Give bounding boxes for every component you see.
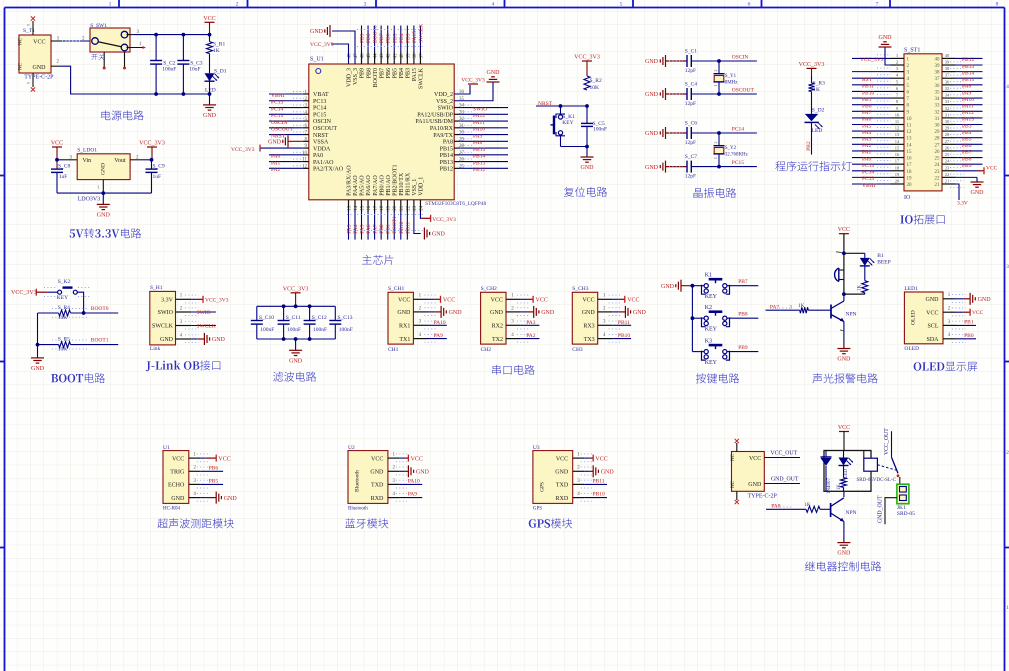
svg-text:SWCLK: SWCLK: [419, 67, 425, 89]
svg-text:11: 11: [895, 119, 899, 124]
svg-text:GND: GND: [432, 232, 446, 238]
svg-text:S_C10: S_C10: [259, 315, 274, 321]
svg-text:VCC: VCC: [986, 166, 998, 172]
svg-text:PB8: PB8: [366, 68, 372, 78]
svg-text:PA3/RX/AO: PA3/RX/AO: [347, 165, 353, 196]
svg-text:1uF: 1uF: [153, 174, 162, 180]
svg-text:RX3: RX3: [583, 324, 594, 330]
svg-text:PB11/RX: PB11/RX: [406, 172, 412, 196]
svg-text:PC14: PC14: [313, 106, 326, 112]
svg-text:PA12/USB/DP: PA12/USB/DP: [417, 112, 453, 118]
svg-text:GND: GND: [971, 190, 985, 196]
svg-text:PA11: PA11: [962, 103, 974, 109]
svg-text:NC: NC: [731, 453, 736, 461]
svg-text:VBAT: VBAT: [271, 93, 286, 99]
svg-text:27: 27: [945, 139, 950, 144]
svg-text:PA4: PA4: [862, 130, 872, 136]
svg-text:PC13: PC13: [313, 99, 326, 105]
svg-text:GND: GND: [31, 366, 45, 372]
svg-text:28: 28: [945, 132, 950, 137]
svg-text:S_R5: S_R5: [58, 337, 70, 343]
svg-text:SDA: SDA: [926, 337, 939, 343]
svg-text:GND: GND: [203, 113, 217, 119]
svg-text:PA2/TX/AO: PA2/TX/AO: [313, 167, 344, 173]
svg-text:OSCIN: OSCIN: [271, 120, 288, 126]
svg-text:28: 28: [935, 137, 941, 142]
svg-text:PB10: PB10: [618, 333, 630, 339]
svg-text:PA7: PA7: [373, 224, 379, 234]
svg-text:RST: RST: [862, 77, 873, 83]
svg-text:BEEP: BEEP: [877, 260, 890, 266]
svg-text:VCC: VCC: [838, 425, 850, 431]
svg-text:PA15: PA15: [412, 68, 418, 81]
svg-text:PA10: PA10: [408, 479, 420, 485]
svg-text:S_C1: S_C1: [685, 48, 697, 54]
svg-text:2: 2: [713, 70, 718, 72]
svg-text:PA7/AO: PA7/AO: [373, 175, 379, 196]
svg-text:32.768KHz: 32.768KHz: [725, 152, 749, 157]
svg-text:PA10: PA10: [473, 127, 485, 133]
svg-text:33: 33: [945, 99, 950, 104]
svg-text:PA9/TX: PA9/TX: [433, 133, 453, 139]
svg-text:NC: NC: [731, 480, 736, 488]
svg-text:PB3: PB3: [405, 33, 411, 43]
svg-text:PB7: PB7: [962, 150, 972, 156]
svg-text:VCC_OUT: VCC_OUT: [770, 451, 797, 457]
svg-text:27: 27: [935, 143, 941, 148]
svg-text:PB11: PB11: [618, 320, 630, 326]
svg-text:2: 2: [896, 60, 898, 65]
svg-text:PB5: PB5: [392, 33, 398, 43]
svg-text:S_C7: S_C7: [685, 154, 697, 160]
svg-text:32: 32: [945, 106, 950, 111]
svg-text:8MHz: 8MHz: [725, 80, 739, 85]
svg-text:10uF: 10uF: [189, 67, 200, 73]
svg-text:17: 17: [895, 159, 900, 164]
svg-text:PA8: PA8: [771, 503, 781, 509]
svg-text:BOOT1: BOOT1: [392, 216, 398, 234]
svg-text:29: 29: [945, 126, 950, 131]
svg-text:VDD_1: VDD_1: [419, 177, 425, 196]
svg-text:PB5: PB5: [392, 68, 398, 78]
svg-text:VCC: VCC: [172, 456, 184, 462]
svg-text:100nF: 100nF: [339, 327, 353, 333]
svg-text:PA5: PA5: [862, 123, 872, 129]
svg-text:VCC: VCC: [595, 456, 607, 462]
svg-text:PB8: PB8: [962, 156, 972, 162]
svg-text:40: 40: [945, 53, 950, 58]
svg-text:S_D1: S_D1: [214, 69, 227, 75]
svg-text:PB11: PB11: [405, 222, 411, 234]
svg-text:PB7: PB7: [379, 68, 385, 78]
svg-text:VSS_2: VSS_2: [436, 99, 453, 105]
svg-text:BOOT0: BOOT0: [373, 25, 379, 43]
svg-text:KEY: KEY: [705, 327, 718, 333]
svg-text:22: 22: [945, 172, 950, 177]
svg-text:10: 10: [895, 112, 900, 117]
svg-text:S_D2: S_D2: [812, 107, 825, 113]
svg-text:PA2: PA2: [526, 333, 536, 339]
svg-text:13: 13: [907, 137, 913, 142]
svg-text:HC-R04: HC-R04: [163, 507, 180, 512]
svg-text:30: 30: [935, 124, 941, 129]
svg-text:25: 25: [945, 152, 950, 157]
svg-text:GPS: GPS: [533, 507, 542, 512]
svg-text:S_CH2: S_CH2: [481, 286, 497, 292]
svg-text:20: 20: [907, 183, 913, 188]
svg-text:VCC_3V3: VCC_3V3: [310, 42, 334, 48]
svg-text:Bluetooth: Bluetooth: [355, 470, 361, 492]
svg-text:SWCLK: SWCLK: [152, 324, 174, 330]
svg-text:VCC: VCC: [203, 16, 215, 22]
svg-text:VCC_3V3: VCC_3V3: [432, 217, 456, 223]
svg-text:S_R1: S_R1: [213, 42, 225, 48]
svg-text:VCC: VCC: [398, 298, 410, 304]
svg-text:PA15: PA15: [962, 117, 974, 123]
svg-text:VCC: VCC: [556, 456, 568, 462]
svg-text:PB1: PB1: [964, 319, 974, 325]
svg-text:PB1/AO: PB1/AO: [386, 174, 392, 195]
svg-text:3.3V: 3.3V: [957, 201, 968, 207]
svg-text:BOOT1: BOOT1: [91, 338, 109, 344]
svg-text:12: 12: [907, 130, 913, 135]
svg-text:OLED: OLED: [904, 346, 919, 352]
svg-text:VCC_3V3: VCC_3V3: [283, 286, 309, 292]
svg-text:PC15: PC15: [313, 112, 326, 118]
svg-text:PB11: PB11: [862, 84, 874, 90]
svg-text:U2: U2: [348, 445, 355, 451]
svg-text:GND: GND: [449, 310, 463, 316]
svg-text:NC: NC: [19, 62, 24, 70]
svg-text:18: 18: [895, 165, 900, 170]
svg-text:U3: U3: [533, 445, 540, 451]
svg-text:S_SW1: S_SW1: [90, 23, 107, 29]
svg-text:GND: GND: [268, 140, 282, 146]
svg-text:GND: GND: [645, 165, 659, 171]
svg-text:VSS_1: VSS_1: [412, 179, 418, 196]
svg-text:PB12: PB12: [440, 167, 453, 173]
svg-text:PB0: PB0: [379, 224, 385, 234]
svg-text:GND: GND: [645, 92, 659, 98]
svg-text:PB12: PB12: [473, 167, 485, 173]
svg-text:PA1: PA1: [271, 160, 281, 166]
svg-text:SRD-05: SRD-05: [897, 511, 915, 517]
svg-text:10K: 10K: [58, 315, 67, 321]
svg-text:PA4: PA4: [353, 224, 359, 234]
svg-text:S_Y2: S_Y2: [725, 146, 737, 151]
svg-text:PB6: PB6: [962, 143, 972, 149]
svg-text:10K: 10K: [590, 85, 600, 91]
svg-text:12pF: 12pF: [685, 174, 696, 180]
svg-text:S_H1: S_H1: [150, 285, 163, 291]
svg-text:18: 18: [907, 170, 913, 175]
svg-text:10K: 10K: [58, 347, 67, 353]
svg-text:100nF: 100nF: [593, 127, 607, 133]
svg-text:PB2/BOOT1: PB2/BOOT1: [392, 164, 398, 195]
svg-text:PB0: PB0: [862, 103, 872, 109]
svg-text:25: 25: [935, 157, 941, 162]
svg-text:PA1: PA1: [862, 150, 872, 156]
svg-text:KEY: KEY: [562, 120, 573, 126]
svg-text:Vin: Vin: [83, 158, 92, 164]
svg-text:12: 12: [895, 126, 900, 131]
svg-text:KEY: KEY: [57, 295, 68, 301]
svg-text:PA9: PA9: [962, 90, 972, 96]
svg-text:3: 3: [364, 2, 367, 8]
svg-text:10: 10: [907, 117, 913, 122]
svg-text:PA10: PA10: [962, 97, 974, 103]
svg-text:CH3: CH3: [572, 347, 583, 353]
svg-text:GND: GND: [541, 310, 555, 316]
svg-text:OSCOUT: OSCOUT: [732, 88, 755, 94]
svg-text:15: 15: [907, 150, 913, 155]
svg-text:RXD: RXD: [556, 496, 569, 502]
svg-text:PB14: PB14: [440, 153, 453, 159]
svg-text:PB13: PB13: [440, 160, 453, 166]
svg-text:PB3: PB3: [406, 68, 412, 78]
svg-text:37: 37: [945, 73, 950, 78]
svg-text:VCC: VCC: [411, 456, 423, 462]
svg-text:36: 36: [945, 79, 950, 84]
svg-text:1: 1: [896, 53, 898, 58]
svg-text:GND: GND: [370, 470, 384, 476]
svg-text:21: 21: [935, 183, 941, 188]
svg-text:VBAT: VBAT: [313, 92, 329, 98]
svg-text:VCC: VCC: [536, 297, 548, 303]
svg-text:26: 26: [945, 145, 950, 150]
svg-text:S_R3: S_R3: [813, 81, 825, 87]
svg-text:36: 36: [935, 84, 941, 89]
svg-text:14: 14: [907, 143, 913, 148]
svg-text:TXD: TXD: [371, 483, 384, 489]
svg-text:GND_OUT: GND_OUT: [771, 477, 799, 483]
svg-text:40: 40: [935, 57, 941, 62]
svg-text:PA0: PA0: [862, 156, 872, 162]
svg-text:SCL: SCL: [927, 324, 938, 330]
svg-text:PB15: PB15: [440, 146, 453, 152]
svg-text:SWIO: SWIO: [438, 106, 454, 112]
svg-text:VCC: VCC: [218, 456, 230, 462]
svg-text:VCC_3V3: VCC_3V3: [11, 290, 37, 296]
svg-text:GND: GND: [978, 297, 992, 303]
svg-text:S_Y1: S_Y1: [725, 74, 737, 79]
svg-text:VCC: VCC: [838, 227, 850, 233]
svg-text:SRD-05VDC-SL-C: SRD-05VDC-SL-C: [857, 478, 897, 483]
svg-text:1K: 1K: [858, 285, 863, 292]
svg-text:2: 2: [236, 2, 239, 8]
svg-text:VDD_2: VDD_2: [434, 92, 453, 98]
svg-text:5: 5: [620, 2, 623, 8]
svg-text:PA5/AO: PA5/AO: [360, 175, 366, 196]
svg-text:TYPE-C-2P: TYPE-C-2P: [748, 494, 778, 500]
svg-text:GND: GND: [160, 337, 174, 343]
svg-text:1K: 1K: [213, 48, 220, 54]
svg-text:NPN: NPN: [846, 510, 857, 516]
svg-text:RXD: RXD: [371, 496, 384, 502]
svg-text:GND: GND: [97, 212, 111, 218]
svg-text:B1: B1: [877, 253, 884, 259]
svg-text:34: 34: [935, 97, 941, 102]
svg-text:PB4: PB4: [399, 33, 405, 43]
svg-text:16: 16: [895, 152, 900, 157]
svg-text:19: 19: [907, 176, 913, 181]
svg-text:BOOT0: BOOT0: [373, 68, 379, 87]
svg-text:VCC_3V3: VCC_3V3: [799, 62, 825, 68]
svg-text:GND: GND: [879, 35, 893, 41]
svg-text:PA0: PA0: [271, 154, 281, 160]
svg-text:20: 20: [895, 178, 900, 183]
svg-text:VDD_3: VDD_3: [347, 68, 353, 87]
svg-text:PB10/TX: PB10/TX: [399, 172, 405, 196]
svg-text:VCC: VCC: [443, 297, 455, 303]
svg-text:29: 29: [935, 130, 941, 135]
svg-text:PA12: PA12: [962, 110, 974, 116]
svg-text:PA9: PA9: [434, 333, 444, 339]
svg-text:VCC: VCC: [51, 141, 63, 147]
svg-text:6: 6: [748, 2, 751, 8]
svg-text:VCC: VCC: [582, 298, 594, 304]
svg-text:PB9: PB9: [738, 345, 748, 351]
svg-text:GND: GND: [212, 337, 226, 343]
svg-text:PB5: PB5: [962, 137, 972, 143]
svg-text:GND: GND: [661, 284, 675, 290]
svg-text:PB15: PB15: [473, 147, 485, 153]
svg-text:PB14: PB14: [473, 154, 485, 160]
svg-text:PB15: PB15: [962, 77, 974, 83]
svg-text:3.3V: 3.3V: [161, 298, 174, 304]
svg-text:PB0: PB0: [964, 333, 974, 339]
svg-text:15: 15: [895, 145, 900, 150]
svg-text:1K: 1K: [813, 87, 820, 93]
svg-text:IO: IO: [904, 195, 911, 201]
svg-text:TXD: TXD: [556, 483, 569, 489]
svg-text:GND: GND: [748, 482, 762, 488]
svg-text:GND: GND: [487, 70, 501, 76]
svg-text:PB6: PB6: [386, 68, 392, 78]
svg-text:OSCIN: OSCIN: [313, 119, 332, 125]
svg-text:PB9: PB9: [360, 33, 366, 43]
svg-text:VCC: VCC: [926, 310, 938, 316]
svg-text:PA11/USB/DM: PA11/USB/DM: [415, 119, 453, 125]
svg-text:K1: K1: [705, 273, 712, 279]
svg-text:PB13: PB13: [473, 160, 485, 166]
svg-text:SWCLK: SWCLK: [197, 323, 216, 329]
svg-text:GND: GND: [397, 310, 411, 316]
svg-text:S_LDO1: S_LDO1: [77, 148, 97, 154]
svg-text:NRST: NRST: [313, 133, 329, 139]
svg-text:TX1: TX1: [399, 337, 410, 343]
svg-text:PA7: PA7: [862, 110, 872, 116]
svg-text:VCC: VCC: [491, 298, 503, 304]
svg-text:KEY: KEY: [705, 360, 718, 366]
svg-text:34: 34: [945, 93, 950, 98]
svg-text:14: 14: [895, 139, 900, 144]
svg-text:19: 19: [895, 172, 900, 177]
svg-text:VCC_OUT: VCC_OUT: [884, 428, 890, 455]
svg-text:RX2: RX2: [492, 324, 503, 330]
svg-text:GND_OUT: GND_OUT: [878, 495, 884, 523]
svg-text:PA10/RX: PA10/RX: [430, 126, 454, 132]
svg-text:S_C9: S_C9: [153, 164, 165, 170]
svg-text:PB7: PB7: [379, 33, 385, 43]
svg-text:PB3: PB3: [962, 123, 972, 129]
svg-text:PB10: PB10: [862, 90, 874, 96]
svg-text:SWIO: SWIO: [473, 106, 487, 112]
svg-text:PA9: PA9: [473, 133, 483, 139]
svg-text:S_C4: S_C4: [685, 81, 697, 87]
svg-text:GND: GND: [926, 297, 940, 303]
svg-text:12pF: 12pF: [685, 140, 696, 146]
svg-text:13: 13: [895, 132, 900, 137]
svg-text:12pF: 12pF: [685, 68, 696, 74]
svg-text:PB0/AO: PB0/AO: [379, 174, 385, 195]
svg-text:PA3: PA3: [526, 320, 536, 326]
svg-text:S_CH1: S_CH1: [388, 286, 404, 292]
svg-text:VBAT: VBAT: [862, 183, 877, 189]
svg-text:PB4: PB4: [399, 68, 405, 78]
svg-text:PB1: PB1: [862, 97, 872, 103]
svg-text:OSCOUT: OSCOUT: [271, 127, 294, 133]
svg-text:SWCLK: SWCLK: [418, 24, 424, 43]
svg-text:8: 8: [996, 2, 999, 8]
svg-text:VCC: VCC: [371, 456, 383, 462]
svg-text:GND: GND: [555, 470, 569, 476]
svg-text:GND: GND: [645, 131, 659, 137]
svg-text:1uF: 1uF: [59, 174, 68, 180]
svg-text:38: 38: [935, 71, 941, 76]
svg-text:100nF: 100nF: [162, 67, 176, 73]
svg-text:PB12: PB12: [962, 57, 974, 63]
svg-text:GND: GND: [601, 470, 615, 476]
svg-text:GND: GND: [490, 310, 504, 316]
svg-text:PA6: PA6: [862, 117, 872, 123]
svg-text:S_K2: S_K2: [58, 279, 71, 285]
svg-text:CH2: CH2: [481, 347, 492, 353]
svg-text:TX2: TX2: [492, 337, 503, 343]
svg-text:26: 26: [935, 150, 941, 155]
svg-text:VDDA: VDDA: [313, 146, 331, 152]
svg-text:GND: GND: [837, 551, 851, 557]
svg-text:GPS: GPS: [539, 482, 545, 492]
svg-text:Link: Link: [150, 346, 161, 352]
svg-text:GND: GND: [310, 29, 324, 35]
svg-text:PA8: PA8: [962, 84, 972, 90]
svg-text:VCC_3V3: VCC_3V3: [461, 78, 485, 84]
svg-text:VCC: VCC: [33, 40, 45, 46]
svg-text:16: 16: [907, 157, 913, 162]
svg-text:PA4/AO: PA4/AO: [353, 175, 359, 196]
svg-text:OLED: OLED: [911, 310, 917, 325]
svg-text:S_C12: S_C12: [312, 315, 327, 321]
svg-text:SWIO: SWIO: [158, 310, 174, 316]
svg-text:4: 4: [492, 2, 495, 8]
svg-text:S_C11: S_C11: [286, 315, 301, 321]
svg-text:GND: GND: [633, 310, 647, 316]
svg-text:VSS_3: VSS_3: [353, 68, 359, 85]
svg-text:PA12: PA12: [473, 113, 485, 119]
svg-text:PB7: PB7: [738, 279, 748, 285]
svg-text:SWIO: SWIO: [197, 310, 211, 316]
svg-text:ECHO: ECHO: [168, 483, 185, 489]
svg-text:17: 17: [907, 163, 913, 168]
svg-text:PB6: PB6: [209, 465, 219, 471]
svg-text:23: 23: [945, 165, 950, 170]
svg-text:TRIG: TRIG: [170, 470, 185, 476]
svg-text:S_R4: S_R4: [58, 305, 70, 311]
svg-text:7: 7: [876, 2, 879, 8]
svg-text:VCC: VCC: [972, 310, 984, 316]
svg-text:PA0: PA0: [313, 153, 323, 159]
